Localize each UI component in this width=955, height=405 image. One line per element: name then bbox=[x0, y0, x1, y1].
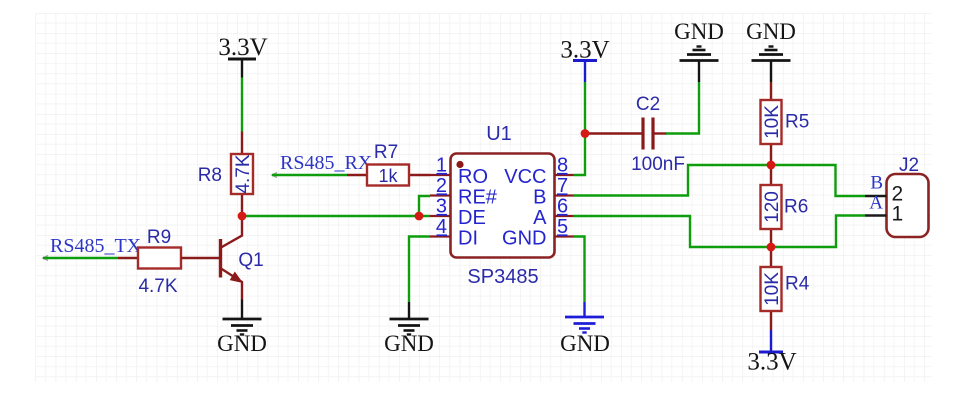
svg-text:RE#: RE# bbox=[458, 187, 498, 209]
U1 pin 7 B bbox=[533, 175, 573, 209]
wire C2 to ground bbox=[653, 82, 699, 134]
resistor R6 bbox=[761, 165, 809, 247]
junction node B net bbox=[767, 161, 776, 170]
connector J2 bbox=[887, 155, 929, 237]
svg-text:4.7K: 4.7K bbox=[138, 276, 177, 297]
svg-text:B: B bbox=[533, 187, 546, 209]
wire VCC riser bbox=[574, 82, 586, 175]
svg-text:GND: GND bbox=[746, 19, 796, 44]
power 3.3V (left top) bbox=[218, 34, 267, 78]
op-amp/IC U1 body bbox=[451, 123, 555, 288]
svg-text:DI: DI bbox=[458, 228, 478, 250]
wire DE net (collector to U1 pin3) bbox=[242, 215, 430, 217]
svg-text:GND: GND bbox=[560, 331, 610, 356]
svg-text:R5: R5 bbox=[785, 112, 809, 133]
U1 pin 1 RO bbox=[430, 155, 488, 189]
U1 pin 6 A bbox=[533, 196, 573, 230]
resistor R5 bbox=[761, 82, 810, 165]
capacitor C2 bbox=[631, 94, 685, 175]
wire RS485_TX bbox=[43, 256, 118, 261]
svg-text:A: A bbox=[533, 207, 547, 229]
wire RE# branch bbox=[419, 196, 430, 216]
junction node A net bbox=[767, 243, 776, 252]
svg-text:GND: GND bbox=[217, 331, 267, 356]
J2 pin 1 bbox=[865, 203, 903, 226]
ground GND (top, above R5, flipped) bbox=[746, 19, 796, 82]
resistor R4 bbox=[761, 247, 810, 330]
power 3.3V (bottom right, blue) bbox=[747, 330, 796, 376]
svg-text:3.3V: 3.3V bbox=[218, 34, 267, 61]
svg-text:R4: R4 bbox=[785, 274, 810, 295]
svg-text:B: B bbox=[870, 173, 883, 194]
resistor R7 bbox=[347, 142, 430, 186]
svg-text:Q1: Q1 bbox=[238, 250, 263, 271]
svg-text:C2: C2 bbox=[636, 94, 660, 115]
ground GND (top, above C2, flipped) bbox=[674, 19, 724, 82]
svg-text:3.3V: 3.3V bbox=[747, 349, 796, 376]
svg-text:RO: RO bbox=[458, 166, 488, 188]
wire R9 to Q1 base bbox=[181, 257, 219, 259]
U1 pin 8 VCC bbox=[504, 155, 573, 189]
wire U1 GND pin to ground bbox=[574, 237, 585, 303]
svg-text:100nF: 100nF bbox=[631, 154, 685, 175]
transistor Q1 bbox=[221, 216, 264, 300]
svg-text:SP3485: SP3485 bbox=[467, 266, 538, 288]
junction node collector/DE bbox=[238, 212, 247, 221]
wire B net bbox=[574, 165, 866, 196]
svg-text:DE: DE bbox=[458, 207, 486, 229]
wire RS485_RX bbox=[272, 173, 347, 178]
wire DI to ground bbox=[409, 237, 430, 303]
svg-text:A: A bbox=[869, 193, 883, 214]
svg-text:10K: 10K bbox=[762, 272, 783, 306]
svg-text:R6: R6 bbox=[784, 197, 808, 218]
svg-text:10K: 10K bbox=[762, 105, 783, 139]
svg-text:RS485_TX: RS485_TX bbox=[50, 235, 142, 257]
ground GND (under U1 DI) bbox=[384, 302, 434, 356]
svg-text:GND: GND bbox=[384, 331, 434, 356]
U1 pin 3 DE bbox=[430, 196, 486, 230]
svg-text:GND: GND bbox=[674, 19, 724, 44]
svg-text:R9: R9 bbox=[147, 227, 171, 248]
svg-text:U1: U1 bbox=[486, 123, 512, 145]
wire A net bbox=[574, 216, 866, 248]
svg-text:GND: GND bbox=[502, 228, 546, 250]
svg-text:RS485_RX: RS485_RX bbox=[280, 152, 373, 174]
ground GND (blue, under U1 pin5) bbox=[560, 302, 610, 356]
J2 pin 2 bbox=[865, 183, 903, 206]
svg-text:J2: J2 bbox=[899, 155, 919, 176]
svg-text:VCC: VCC bbox=[504, 166, 546, 188]
junction node RE#/DE tie bbox=[415, 212, 424, 221]
resistor R9 bbox=[118, 227, 181, 297]
ground GND (under Q1) bbox=[217, 300, 267, 357]
power 3.3V (top middle, blue) bbox=[560, 37, 609, 83]
wire 3.3V to R8 bbox=[241, 78, 243, 132]
svg-text:4.7K: 4.7K bbox=[233, 154, 254, 193]
U1 pin 5 GND bbox=[502, 216, 573, 250]
svg-text:1: 1 bbox=[892, 203, 904, 226]
wire VCC to C2 bbox=[585, 132, 643, 134]
junction node VCC bbox=[581, 129, 590, 138]
svg-text:R7: R7 bbox=[374, 142, 398, 163]
U1 pin 2 RE# bbox=[430, 175, 498, 209]
resistor R8 bbox=[198, 132, 254, 217]
svg-text:1k: 1k bbox=[378, 166, 398, 186]
svg-text:R8: R8 bbox=[198, 165, 222, 186]
U1 pin 4 DI bbox=[430, 216, 478, 250]
svg-text:120: 120 bbox=[762, 191, 783, 223]
